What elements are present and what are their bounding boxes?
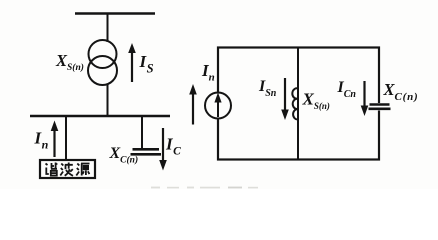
wire: transformer to lower bus (107, 84, 109, 116)
arrow I_S (128, 43, 136, 82)
transformer X_S(n) (88, 40, 117, 85)
wire: lower bus to capacitor X_C(n) (141, 116, 143, 148)
glyph 波 (60, 163, 73, 176)
top bus (75, 12, 155, 14)
equivalent circuit loop (218, 48, 379, 160)
svg-text:XS(n): XS(n) (302, 90, 330, 112)
svg-text:In: In (34, 129, 49, 152)
harmonic source box 谐波源 (40, 160, 95, 178)
glyph 源 (76, 164, 89, 176)
svg-text:ICn: ICn (337, 79, 357, 100)
wire: lower bus to harmonic source box (65, 116, 67, 160)
glyph 谐 (46, 163, 58, 176)
current source I_n (205, 93, 231, 119)
lower bus (30, 115, 170, 118)
arrow I_Cn (361, 81, 369, 116)
svg-text:XS(n): XS(n) (55, 51, 84, 73)
arrow I_Sn (281, 78, 289, 120)
capacitor X_C(n) (right diagram) (369, 103, 391, 111)
svg-text:XC(n): XC(n) (383, 80, 419, 103)
arrow I_n (left diagram) (51, 121, 59, 158)
arrow I_n (right diagram) (189, 84, 197, 125)
inductor X_S(n) (292, 88, 298, 119)
svg-text:IS: IS (139, 52, 154, 76)
svg-text:ISn: ISn (258, 78, 277, 99)
capacitor X_C(n) plates (left diagram) (131, 149, 162, 154)
wire: top bus to transformer (107, 14, 109, 43)
svg-text:IC: IC (165, 135, 181, 158)
svg-text:In: In (201, 61, 215, 84)
middle branch wire (297, 48, 299, 160)
faint caption remnants at bottom edge (151, 187, 258, 189)
arrow I_C (159, 128, 167, 171)
